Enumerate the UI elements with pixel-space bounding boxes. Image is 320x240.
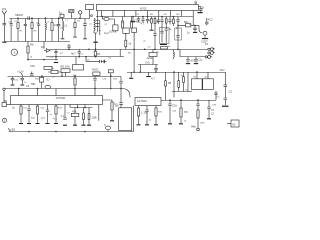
svg-text:R31: R31 xyxy=(158,112,163,114)
svg-text:C8: C8 xyxy=(164,14,168,16)
svg-text:C7: C7 xyxy=(81,54,85,56)
svg-text:R7: R7 xyxy=(60,53,64,55)
svg-text:R4: R4 xyxy=(77,21,81,23)
svg-text:4u: 4u xyxy=(149,120,152,122)
svg-text:C1: C1 xyxy=(26,84,30,88)
svg-text:R9: R9 xyxy=(150,14,154,16)
svg-text:4.7: 4.7 xyxy=(141,22,145,26)
svg-text:N702: N702 xyxy=(140,7,147,11)
svg-text:1u: 1u xyxy=(187,31,191,35)
svg-text:cb: cb xyxy=(143,41,146,43)
svg-text:1k: 1k xyxy=(30,57,33,59)
svg-text:10B: 10B xyxy=(92,116,97,120)
svg-text:T2: T2 xyxy=(122,23,125,25)
svg-text:12: 12 xyxy=(211,112,215,116)
svg-text:1B: 1B xyxy=(156,20,160,24)
svg-text:C5: C5 xyxy=(51,57,55,59)
svg-text:102R: 102R xyxy=(109,32,115,34)
svg-text:+B2: +B2 xyxy=(10,128,15,132)
svg-text:4C2: 4C2 xyxy=(208,18,214,22)
svg-text:4.7: 4.7 xyxy=(41,116,45,120)
svg-text:4u7: 4u7 xyxy=(71,52,76,56)
svg-text:C13: C13 xyxy=(102,79,107,81)
svg-text:47: 47 xyxy=(149,19,153,23)
svg-text:R13: R13 xyxy=(113,79,118,81)
svg-text:12uF: 12uF xyxy=(147,56,154,60)
svg-text:1u: 1u xyxy=(194,1,198,5)
svg-text:R25: R25 xyxy=(58,108,63,110)
svg-text:C9: C9 xyxy=(136,14,140,16)
svg-text:R1: R1 xyxy=(20,31,24,33)
svg-text:C5x: C5x xyxy=(172,104,178,108)
svg-text:1u: 1u xyxy=(12,106,16,110)
svg-text:4DB: 4DB xyxy=(69,10,74,13)
svg-text:C23: C23 xyxy=(40,108,45,110)
svg-text:L1: L1 xyxy=(66,20,69,22)
svg-text:W2 10k: W2 10k xyxy=(60,65,70,69)
svg-text:C2: C2 xyxy=(134,19,138,23)
svg-text:1u: 1u xyxy=(99,30,102,32)
svg-text:1B: 1B xyxy=(168,81,172,85)
svg-text:C6: C6 xyxy=(108,58,112,60)
svg-text:R22: R22 xyxy=(31,118,36,120)
svg-text:L2: L2 xyxy=(47,21,50,23)
svg-text:R35: R35 xyxy=(201,123,206,125)
svg-text:R8: R8 xyxy=(177,14,181,16)
svg-text:R201: R201 xyxy=(92,68,99,72)
svg-text:R1: R1 xyxy=(97,52,101,56)
svg-text:1u: 1u xyxy=(59,11,63,15)
svg-text:1: 1 xyxy=(13,51,15,55)
svg-text:C4: C4 xyxy=(217,97,221,99)
svg-text:4x: 4x xyxy=(169,27,173,31)
svg-text:C6x: C6x xyxy=(220,68,226,72)
svg-text:4u: 4u xyxy=(157,52,160,54)
svg-text:C33: C33 xyxy=(172,111,177,113)
svg-text:47u: 47u xyxy=(191,59,196,63)
svg-text:N2: N2 xyxy=(205,77,209,79)
svg-text:0J: 0J xyxy=(47,78,51,82)
svg-text:10k: 10k xyxy=(54,23,59,27)
svg-text:L3: L3 xyxy=(52,77,55,79)
svg-text:R3: R3 xyxy=(34,31,38,33)
svg-text:C2: C2 xyxy=(229,90,233,94)
svg-text:R12: R12 xyxy=(35,79,40,81)
svg-text:C21: C21 xyxy=(23,108,28,110)
svg-text:4.1: 4.1 xyxy=(53,117,57,121)
svg-text:1O: 1O xyxy=(148,47,151,49)
svg-text:N5: N5 xyxy=(184,110,188,114)
svg-text:4k: 4k xyxy=(168,46,171,48)
svg-text:W1: W1 xyxy=(2,7,7,11)
svg-text:N1: N1 xyxy=(194,77,198,79)
svg-text:R6: R6 xyxy=(128,53,132,55)
svg-text:4.7: 4.7 xyxy=(151,77,155,81)
svg-text:C8x: C8x xyxy=(30,64,36,68)
svg-text:Dx: Dx xyxy=(41,45,45,49)
svg-text:Hkb: Hkb xyxy=(191,125,196,129)
svg-text:Z1: Z1 xyxy=(105,24,108,26)
svg-text:14: 14 xyxy=(176,26,180,30)
svg-text:SB1: SB1 xyxy=(31,83,36,86)
svg-text:LA7620: LA7620 xyxy=(137,99,147,103)
svg-text:L1: L1 xyxy=(65,24,69,28)
svg-text:1u8: 1u8 xyxy=(115,105,120,108)
svg-text:2k: 2k xyxy=(51,67,55,71)
svg-text:C11: C11 xyxy=(15,80,20,82)
svg-text:TA7630: TA7630 xyxy=(56,96,66,100)
svg-text:1k: 1k xyxy=(184,121,187,123)
svg-text:2B: 2B xyxy=(4,99,8,103)
svg-text:1k: 1k xyxy=(128,42,132,46)
svg-text:Rb: Rb xyxy=(30,43,34,47)
svg-text:2: 2 xyxy=(4,118,6,122)
svg-text:7x0: 7x0 xyxy=(145,61,150,65)
svg-text:SB1W: SB1W xyxy=(15,13,23,17)
svg-text:C2: C2 xyxy=(67,113,71,115)
svg-text:+12V: +12V xyxy=(17,70,24,74)
svg-text:S2: S2 xyxy=(232,123,236,127)
svg-text:L4: L4 xyxy=(89,24,92,26)
svg-text:1.1: 1.1 xyxy=(61,114,65,118)
svg-text:C2x: C2x xyxy=(198,58,204,62)
svg-text:P2: P2 xyxy=(205,43,209,46)
svg-text:C36: C36 xyxy=(212,105,217,107)
svg-text:1.3u1: 1.3u1 xyxy=(141,111,148,115)
svg-text:47k: 47k xyxy=(72,110,77,114)
svg-text:Cb: Cb xyxy=(201,6,205,10)
